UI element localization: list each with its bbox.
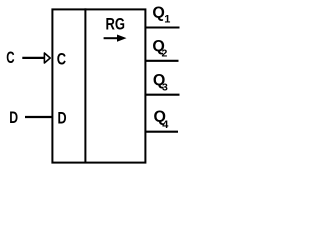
wire Q2 output [145,60,179,62]
register box RG (IC outline) [52,9,145,162]
dynamic clock edge triangle [44,53,50,63]
wire Q3 output [145,94,180,96]
svg-text:D: D [58,109,67,128]
control/data section divider [84,8,86,162]
svg-text:RG: RG [106,16,126,34]
shift direction arrow [104,35,127,42]
wire Q1 output [145,26,180,28]
svg-text:Q3: Q3 [153,72,168,94]
wire Q4 output [145,131,178,133]
wire D input [25,116,52,118]
svg-text:D: D [9,109,18,127]
wire C input [22,57,44,59]
svg-text:C: C [57,50,66,69]
svg-text:Q4: Q4 [154,109,170,131]
svg-text:C: C [6,49,15,68]
svg-text:Q2: Q2 [152,38,167,60]
svg-text:Q1: Q1 [152,5,170,26]
